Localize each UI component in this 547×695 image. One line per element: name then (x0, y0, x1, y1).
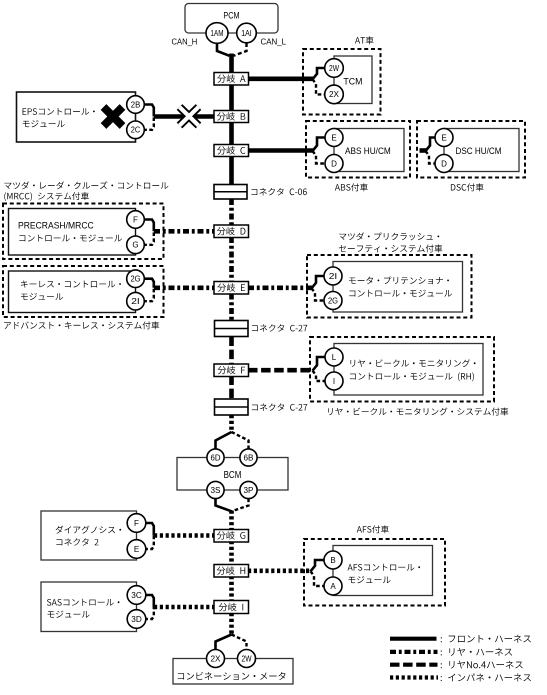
svg-text:2G: 2G (328, 296, 338, 305)
legend line front harness (solid) (390, 637, 437, 641)
node branch F box (214, 364, 249, 377)
label AFS module line 2 (349, 576, 391, 583)
wire stubs EPS 2B/2C hook (143, 105, 154, 117)
svg-text:F: F (134, 519, 139, 528)
module PRECRASH/MRCC box (9, 209, 136, 256)
pin F on PRECRASH (127, 211, 145, 229)
wire branch A to TCM (solid) (248, 77, 314, 82)
label SAS module line 2 (48, 611, 90, 618)
svg-text:2G: 2G (131, 275, 141, 284)
pin 3D on SAS (127, 610, 146, 629)
pin F on diagnosis connector (127, 514, 146, 533)
svg-text:2C: 2C (131, 126, 141, 135)
pin 2X on combination meter (207, 650, 225, 668)
label branch I (219, 603, 243, 611)
svg-text:L: L (332, 353, 337, 362)
svg-text:CAN_L: CAN_L (261, 36, 287, 46)
wire connector C-27 to branch F (rear No.4 harness, long dash) (229, 337, 234, 366)
wire branch D to branch E (dash-dot) (229, 237, 234, 283)
svg-text:E: E (441, 133, 446, 142)
wire stubs pretensioner 2I/2G hook (312, 276, 326, 288)
label rear vehicle module line 1 (350, 359, 475, 367)
wire stubs keyless 2G/2I hook (143, 279, 154, 288)
option box DSC (dashed) (417, 121, 525, 178)
connector C-27 lower (215, 399, 249, 415)
node branch D box (214, 225, 249, 238)
svg-text:BCM: BCM (224, 470, 242, 481)
pin D on ABS (325, 155, 343, 173)
label AFS-sha (357, 525, 389, 533)
wire branch H to branch I (dotted) (229, 576, 234, 602)
module AFS box (333, 546, 433, 596)
wire CAN_L from PCM 1AI to bus (dashed) (234, 43, 247, 56)
node branch E box (214, 282, 249, 295)
label branch B (217, 112, 245, 120)
svg-text:B: B (330, 556, 335, 565)
wire stubs diagnosis connector F/E hook (144, 523, 154, 536)
pin L on rear vehicle monitoring (325, 348, 343, 366)
wire PRECRASH/MRCC module to branch D (dash-dot) (154, 229, 215, 234)
wire stub DSC entry (solid thick) (420, 148, 427, 153)
wire branch C to connector C-06 (229, 156, 234, 188)
svg-text:1AI: 1AI (241, 29, 252, 38)
wire branch F to rear vehicle monitoring module (long dash) (248, 368, 314, 373)
module motor pretensioner box (333, 262, 463, 313)
label branch G (217, 531, 245, 539)
pin 2B on EPS (127, 96, 145, 114)
label advanced keyless system (4, 321, 159, 329)
label branch F (218, 366, 246, 374)
svg-text:E: E (134, 545, 139, 554)
wire connector C-06 to branch D (rear harness, dash-dot) (229, 199, 234, 226)
label SAS module line 1 (47, 599, 120, 606)
wire CAN_H from PCM 1AM to bus (217, 44, 230, 56)
svg-text:3P: 3P (244, 486, 254, 495)
connector C-27 upper (215, 321, 249, 337)
legend label front harness (441, 635, 531, 643)
pin 1AM on PCM (206, 23, 228, 44)
svg-text:2W: 2W (242, 654, 252, 663)
wire diagnosis connector 2 to branch G (dotted) (154, 533, 215, 538)
node branch H box (214, 565, 249, 578)
svg-text:2B: 2B (131, 100, 141, 109)
svg-text:2I: 2I (329, 272, 338, 281)
label branch H (217, 566, 245, 574)
node branch G box (214, 530, 249, 543)
svg-text:6B: 6B (244, 453, 254, 462)
label branch D (217, 227, 246, 235)
option box AT (dashed) (303, 49, 381, 115)
legend line rear No.4 harness (long dash) (390, 663, 438, 667)
pin I on rear vehicle monitoring (325, 372, 343, 390)
label DSC-sha (451, 183, 484, 191)
wire stubs PRECRASH F/G hook (143, 220, 154, 232)
label connector C-06 (251, 188, 306, 195)
svg-text:D: D (331, 159, 337, 168)
wire stubs ABS E/D hook (313, 138, 327, 152)
pin 6B on BCM (240, 449, 257, 466)
legend label instrument panel harness (441, 673, 531, 681)
pin 1AI on PCM (237, 23, 257, 43)
legend line instrument panel harness (dotted) (390, 675, 438, 679)
option box advanced keyless (dashed) (3, 266, 164, 317)
svg-text:E: E (331, 133, 336, 142)
pin G on PRECRASH (127, 236, 145, 254)
svg-text:CAN_H: CAN_H (172, 36, 198, 46)
pin D on DSC (435, 155, 453, 173)
pin 2I on keyless (127, 292, 145, 310)
module TCM box (334, 56, 372, 104)
wire EPS module to branch B (solid) (154, 114, 215, 119)
pin B on AFS (324, 551, 342, 569)
module keyless control box (9, 271, 136, 313)
wire branch E to motor pretensioner module (dash-dot) (248, 285, 313, 290)
pin E on diagnosis connector (127, 540, 146, 559)
legend label rear No.4 harness (441, 661, 523, 669)
svg-text:D: D (441, 159, 447, 168)
wire main bus PCM to branch A (front harness, solid) (229, 54, 234, 75)
wire branch H to AFS control module (dotted) (248, 568, 312, 573)
label ABS-sha (335, 183, 368, 191)
wire stubs combination meter 2X/2W (216, 635, 232, 651)
pin 2G on pretensioner (324, 292, 342, 310)
wire branch F to second connector C-27 (long dash) (229, 376, 234, 401)
wire branch E to connector C-27 (dash-dot) (229, 294, 234, 323)
label pre-crash line 1 (339, 232, 439, 240)
svg-text:2X: 2X (329, 90, 340, 99)
label branch A (217, 74, 245, 82)
node branch C box (214, 145, 249, 157)
wire keyless module to branch E (dash-dot) (154, 285, 215, 290)
wire branch I to combination meter split (dotted) (229, 613, 234, 635)
module SAS box (41, 582, 137, 632)
connector C-06 (214, 185, 247, 200)
label branch E (217, 283, 245, 291)
svg-text:F: F (133, 215, 138, 224)
module combination meter box (173, 659, 293, 685)
pin 2W on combination meter (238, 650, 256, 668)
wire branch G to branch H (dotted) (229, 541, 234, 566)
wire stubs TCM 2W/2X hook (313, 68, 327, 79)
option box rear vehicle monitoring (dashed) (310, 337, 494, 402)
pin 2W on TCM (325, 59, 344, 78)
wire stubs AFS B/A hook (311, 560, 326, 571)
wire stubs BCM bottom 3S/3P (216, 499, 232, 512)
label combination meter (178, 672, 286, 680)
svg-text:G: G (132, 241, 138, 250)
label AT-sha (355, 36, 374, 44)
label keyless module line 1 (21, 280, 121, 287)
label rear vehicle system (328, 408, 508, 416)
label EPS module line 2 (23, 120, 65, 127)
label keyless module line 2 (21, 293, 63, 300)
svg-text:2I: 2I (131, 297, 140, 306)
svg-text:A: A (330, 582, 336, 591)
svg-text:1AM: 1AM (211, 29, 224, 38)
module diagnosis connector 2 box (41, 511, 137, 560)
pin 3P on BCM (240, 481, 257, 498)
module EPS box (17, 92, 136, 142)
svg-text:PCM: PCM (223, 11, 239, 22)
legend line rear harness (dash-dot) (390, 650, 438, 654)
label pretensioner line 1 (349, 277, 449, 285)
pin A on AFS (324, 577, 342, 595)
pin 3C on SAS (127, 586, 146, 605)
wire stubs BCM top 6D/6B (216, 432, 232, 449)
label connector C-27 lower (252, 403, 307, 410)
wire BCM merge to branch G (dotted) (229, 511, 234, 532)
wire stubs rear vehicle monitoring L/I hook (313, 357, 327, 371)
pin 2C on EPS (127, 121, 145, 139)
label MRCC system line 1 (4, 181, 168, 189)
label branch C (217, 146, 245, 154)
svg-text:2W: 2W (329, 64, 339, 73)
svg-text:2X: 2X (211, 654, 222, 663)
label pretensioner line 2 (349, 290, 452, 297)
label EPS module line 1 (23, 108, 95, 115)
pin 2X on TCM (325, 85, 344, 104)
legend label rear harness (441, 648, 512, 656)
module ABS HU/CM box (334, 129, 404, 172)
wire branch A to branch B (229, 84, 234, 112)
pin E on ABS (325, 129, 343, 147)
cut mark white X on EPS wire (180, 107, 199, 126)
label AFS module line 1 (348, 564, 421, 571)
wire branch B to branch C (229, 122, 234, 146)
svg-text:DSC HU/CM: DSC HU/CM (456, 146, 502, 156)
module DSC HU/CM box (444, 129, 519, 172)
module rear vehicle monitoring box (334, 344, 483, 396)
svg-text:ABS HU/CM: ABS HU/CM (345, 146, 391, 156)
option box pre-crash safety (dashed) (307, 255, 472, 318)
wire SAS module to branch I (dotted) (154, 605, 215, 610)
wire stubs DSC E/D hook (426, 138, 437, 152)
svg-text:3C: 3C (131, 591, 142, 600)
option box ABS (dashed) (306, 121, 410, 178)
pin 3S on BCM (207, 481, 224, 498)
svg-text:PRECRASH/MRCC: PRECRASH/MRCC (18, 220, 94, 230)
wire stubs SAS 3C/3D hook (144, 595, 154, 607)
svg-text:TCM: TCM (343, 77, 362, 88)
label rear vehicle module line 2 (350, 372, 474, 381)
label diagnosis line 1 (56, 526, 122, 534)
wire branch C to ABS HU/CM (solid) (248, 148, 314, 153)
label diagnosis line 2 (56, 538, 98, 545)
pin 2G on keyless (127, 270, 145, 288)
wire connector C-27 to BCM split (instrument panel, dotted) (229, 415, 234, 433)
svg-text:3S: 3S (211, 486, 221, 495)
node branch I box (214, 601, 249, 614)
svg-text:I: I (333, 377, 335, 386)
label pre-crash line 2 (339, 244, 442, 252)
node branch A box (214, 73, 249, 86)
module BCM box (177, 458, 288, 491)
option box AFS (dashed) (304, 539, 445, 606)
module PCM box (185, 4, 278, 34)
svg-text:6D: 6D (211, 453, 221, 462)
label MRCC system line 2 (4, 192, 89, 201)
option box MRCC (dashed) (3, 204, 164, 260)
label PRECRASH module line 2 (19, 234, 122, 241)
label connector C-27 upper (252, 324, 307, 331)
pin 2I on pretensioner (324, 267, 342, 285)
svg-text:3D: 3D (131, 615, 142, 624)
pin E on DSC (435, 129, 453, 147)
pin 6D on BCM (207, 449, 224, 466)
node branch B box (214, 111, 249, 123)
delete mark black X over EPS module (104, 107, 123, 126)
